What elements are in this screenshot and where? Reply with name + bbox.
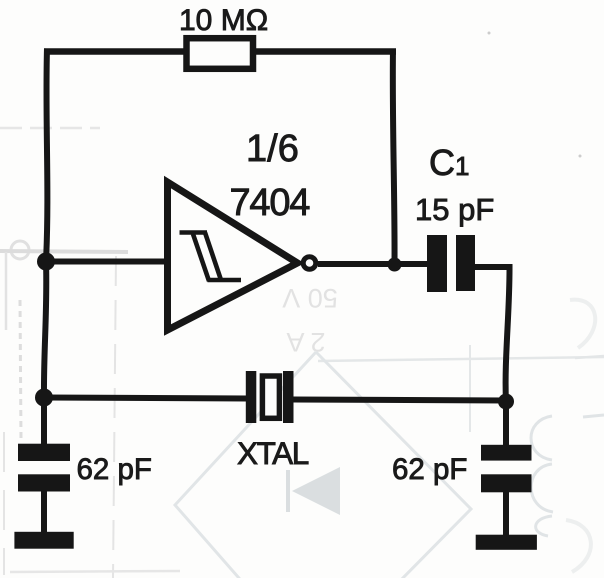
svg-text:2 A: 2 A: [286, 327, 325, 357]
crystal XTAL body rectangle: [262, 376, 279, 418]
wire: right vertical feedback down to output node: [393, 49, 395, 265]
op-amp/inverter U1: 1/6 7404 triangle: [168, 182, 298, 330]
wire: bottom horizontal, right segment from crystal: [293, 400, 506, 401]
svg-text:1/6: 1/6: [246, 128, 299, 170]
wire: output wire from bubble to capacitor C1: [318, 261, 428, 267]
schmitt-trigger hysteresis symbol inside U1: [180, 233, 242, 282]
svg-text:15 pF: 15 pF: [415, 192, 494, 227]
resistor R1: [187, 38, 254, 69]
capacitor C3 top plate: [481, 445, 532, 461]
capacitor C2 bottom plate: [18, 474, 70, 491]
node: bottom-right node: [498, 394, 514, 410]
svg-text:XTAL: XTAL: [237, 435, 309, 471]
ground (right): [476, 535, 537, 550]
svg-text:7404: 7404: [230, 182, 311, 224]
svg-text:50 V: 50 V: [282, 283, 338, 313]
svg-text:C1: C1: [429, 142, 469, 183]
node: output node (feedback/output junction): [388, 258, 402, 272]
svg-text:62 pF: 62 pF: [392, 453, 467, 486]
wire: left vertical from top corner to input node: [46, 49, 47, 262]
capacitor C1 left plate: [427, 235, 447, 292]
crystal XTAL right plate: [283, 371, 294, 423]
svg-text:10 MΩ: 10 MΩ: [179, 4, 268, 37]
node: bottom-left node: [35, 389, 53, 407]
wire: capacitor C3 to ground: [503, 492, 509, 537]
wire: right vertical down to bottom-right node: [506, 264, 510, 402]
wire: bottom-left node to capacitor C2: [41, 397, 47, 446]
wire: left vertical from input node down to bottom-left node: [44, 261, 46, 397]
wire: input wire from left node to inverter: [46, 259, 166, 265]
wire: bottom-right node to capacitor C3: [503, 401, 509, 446]
capacitor C2 top plate: [18, 444, 70, 461]
ground (left): [14, 532, 73, 549]
capacitor C1 right plate: [456, 235, 475, 291]
wire: bottom horizontal, left segment to crystal: [44, 398, 247, 399]
wire: from C1 right plate to right corner: [474, 264, 510, 270]
capacitor C3 bottom plate: [481, 474, 532, 492]
node: input node (left, feedback/input junction): [37, 253, 55, 271]
wire: capacitor C2 to ground: [41, 491, 47, 534]
wire: top horizontal, right segment: [253, 48, 396, 55]
wire: top horizontal, left segment: [44, 48, 186, 55]
svg-text:62 pF: 62 pF: [77, 453, 152, 486]
crystal XTAL left plate: [246, 371, 256, 423]
inverter output bubble: [303, 257, 316, 270]
